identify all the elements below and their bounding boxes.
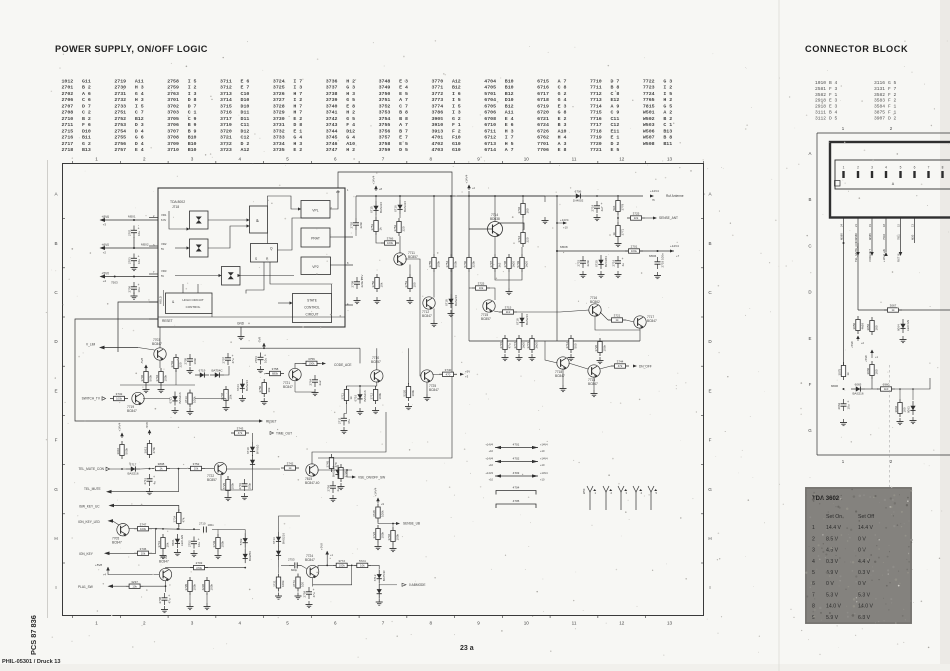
svg-text:C10: C10	[241, 91, 250, 97]
svg-text:9: 9	[477, 621, 480, 626]
ground	[160, 552, 167, 559]
junction	[522, 195, 524, 197]
svg-text:+5V: +5V	[465, 370, 470, 374]
svg-text:BZX284: BZX284	[604, 256, 608, 267]
svg-text:6713: 6713	[484, 141, 496, 147]
svg-text:2710: 2710	[62, 116, 74, 122]
svg-text:6715: 6715	[370, 206, 374, 213]
svg-text:2752: 2752	[114, 116, 126, 122]
svg-text:A12: A12	[452, 79, 461, 85]
resistor 3736	[134, 547, 152, 556]
svg-text:+: +	[168, 594, 170, 598]
svg-text:2: 2	[143, 157, 146, 162]
svg-text:6726: 6726	[537, 128, 549, 134]
svg-text:F 6: F 6	[82, 122, 91, 128]
transistor 7713	[588, 365, 600, 378]
svg-text:10: 10	[524, 621, 530, 626]
ground	[516, 354, 523, 361]
svg-text:2: 2	[857, 166, 859, 170]
svg-text:I 3: I 3	[293, 85, 302, 91]
connector grid ruler	[808, 126, 950, 464]
svg-text:D10: D10	[241, 97, 250, 103]
svg-text:B 2: B 2	[82, 116, 91, 122]
svg-text:-5V8: -5V8	[140, 358, 144, 364]
resistor 3753	[404, 274, 417, 292]
transistor 7722	[214, 462, 226, 475]
svg-text:8.5 V: 8.5 V	[826, 536, 839, 542]
wire	[104, 247, 158, 249]
svg-text:7720: 7720	[590, 141, 602, 147]
ground	[897, 418, 904, 425]
ground	[506, 288, 513, 295]
wire M508 bus	[557, 250, 674, 252]
svg-text:ION_KEY: ION_KEY	[79, 552, 94, 556]
svg-text:+5V8: +5V8	[95, 563, 102, 567]
main schematic frame	[63, 164, 704, 616]
svg-text:&: &	[256, 218, 259, 223]
svg-text:3724: 3724	[273, 79, 285, 85]
svg-text:SENSE_UB: SENSE_UB	[403, 522, 420, 526]
transistor 7711	[394, 253, 406, 266]
svg-text:3752: 3752	[393, 224, 397, 231]
svg-text:CONTROL: CONTROL	[186, 305, 201, 309]
svg-text:2k00: 2k00	[535, 342, 539, 349]
svg-text:220: 220	[526, 237, 530, 242]
svg-text:7718: 7718	[590, 128, 602, 134]
svg-text:1k: 1k	[612, 232, 616, 236]
svg-text:3582: 3582	[815, 92, 826, 98]
ground	[560, 385, 567, 392]
svg-text:5220: 5220	[402, 389, 406, 396]
svg-text:6710: 6710	[484, 122, 496, 128]
ground	[241, 493, 248, 500]
svg-text:3774: 3774	[431, 103, 443, 109]
svg-text:3112: 3112	[815, 115, 826, 121]
svg-text:3773: 3773	[431, 97, 443, 103]
resistor 3712b	[565, 335, 578, 353]
svg-text:100k: 100k	[396, 533, 400, 540]
resistor 3771b	[292, 574, 305, 592]
svg-text:BYV10: BYV10	[255, 444, 259, 454]
resistor 3716	[517, 229, 530, 247]
TDA3602 voltage table	[805, 487, 912, 624]
svg-text:TEL_MUTE_CON: TEL_MUTE_CON	[854, 240, 858, 262]
svg-text:A: A	[809, 151, 812, 156]
svg-text:A 2: A 2	[663, 110, 672, 116]
svg-text:2u2: 2u2	[318, 380, 322, 385]
svg-text:E: E	[708, 388, 711, 393]
svg-text:CODE_ACE: CODE_ACE	[334, 363, 352, 367]
svg-text:+7: +7	[676, 254, 680, 258]
svg-text:2062: 2062	[837, 402, 841, 409]
resistor 3751	[370, 217, 383, 235]
svg-text:7723: 7723	[643, 85, 655, 91]
svg-text:STATE: STATE	[307, 299, 317, 303]
svg-text:3752: 3752	[193, 462, 200, 466]
svg-text:BC847: BC847	[112, 541, 122, 545]
svg-text:2718 100n: 2718 100n	[661, 253, 665, 268]
svg-text:3752: 3752	[379, 103, 391, 109]
svg-text:6065: 6065	[855, 382, 862, 386]
svg-text:6718: 6718	[537, 97, 549, 103]
svg-text:7722: 7722	[643, 79, 655, 85]
svg-text:3727: 3727	[273, 97, 285, 103]
svg-text:BC847: BC847	[429, 388, 439, 392]
svg-text:100k: 100k	[281, 580, 285, 587]
svg-text:H 2: H 2	[346, 79, 355, 85]
svg-text:2758: 2758	[167, 79, 179, 85]
svg-text:7711: 7711	[590, 85, 602, 91]
resistor 3742	[281, 462, 299, 471]
svg-text:10k: 10k	[267, 387, 271, 392]
svg-text:3741: 3741	[157, 540, 161, 547]
diode 6721	[171, 534, 184, 548]
svg-text:2711: 2711	[143, 478, 147, 485]
svg-text:3723: 3723	[220, 147, 232, 153]
svg-text:3746: 3746	[326, 141, 338, 147]
resistor 3913	[143, 440, 156, 458]
svg-text:3773: 3773	[526, 341, 530, 348]
resistor 3704	[155, 368, 168, 386]
ground	[597, 357, 604, 364]
svg-text:560k: 560k	[454, 260, 458, 267]
svg-text:3786: 3786	[431, 110, 443, 116]
svg-text:6716: 6716	[394, 205, 398, 212]
svg-text:G 4: G 4	[558, 97, 567, 103]
svg-text:3757: 3757	[379, 135, 391, 141]
diode 5702a	[239, 533, 248, 547]
test point TP1	[587, 486, 597, 510]
svg-text:3746: 3746	[517, 206, 521, 213]
svg-text:7715: 7715	[590, 110, 602, 116]
svg-text:100u: 100u	[631, 249, 638, 253]
svg-text:4705: 4705	[513, 499, 520, 503]
capacitor 2703	[128, 254, 141, 266]
svg-text:5.9 V: 5.9 V	[826, 615, 839, 621]
svg-text:SENSE_ANT: SENSE_ANT	[659, 216, 678, 220]
resistor 3779	[612, 197, 625, 215]
svg-text:3708: 3708	[503, 260, 507, 267]
svg-text:+10: +10	[563, 226, 568, 230]
svg-text:M501: M501	[128, 215, 136, 219]
svg-text:H: H	[708, 536, 711, 541]
svg-text:3746: 3746	[387, 533, 391, 540]
svg-text:3111: 3111	[815, 110, 826, 116]
svg-text:3725: 3725	[273, 85, 285, 91]
resistor 3756	[303, 357, 321, 366]
svg-text:D10: D10	[241, 103, 250, 109]
ground	[615, 240, 622, 247]
resistor 3220	[402, 383, 415, 401]
resistor 3750	[371, 274, 384, 292]
junction	[375, 195, 377, 197]
svg-text:+8V6: +8V6	[101, 215, 109, 219]
svg-text:5701: 5701	[484, 91, 496, 97]
jumper 4703	[485, 471, 548, 482]
svg-text:I 5: I 5	[452, 103, 461, 109]
svg-text:470k: 470k	[152, 446, 156, 453]
svg-text:C 8: C 8	[558, 85, 567, 91]
svg-text:E 1: E 1	[293, 128, 302, 134]
svg-text:10u: 10u	[137, 287, 141, 292]
svg-text:C 1: C 1	[188, 110, 197, 116]
svg-text:3750: 3750	[258, 385, 262, 392]
svg-text:Set On: Set On	[826, 514, 842, 520]
svg-text:BC847: BC847	[127, 409, 137, 413]
svg-text:A 6: A 6	[82, 91, 91, 97]
svg-text:I 5: I 5	[135, 103, 144, 109]
svg-text:1k: 1k	[379, 227, 383, 231]
resistor 3766	[381, 237, 399, 246]
svg-text:I 7: I 7	[505, 135, 514, 141]
ground	[354, 297, 361, 304]
svg-text:3759: 3759	[379, 147, 391, 153]
svg-text:F 1: F 1	[888, 104, 897, 110]
ground	[542, 217, 549, 224]
svg-text:3725: 3725	[633, 212, 640, 216]
svg-text:3739: 3739	[212, 540, 216, 547]
svg-text:A 7: A 7	[558, 79, 567, 85]
svg-text:B 4: B 4	[829, 80, 838, 86]
resistor 3808	[152, 462, 170, 471]
svg-text:5709: 5709	[516, 260, 520, 267]
svg-text:560: 560	[574, 343, 578, 348]
svg-text:7710: 7710	[590, 79, 602, 85]
svg-text:100: 100	[301, 582, 305, 587]
svg-text:3913: 3913	[143, 446, 147, 453]
resistor 3739	[212, 534, 225, 552]
transistor 7710	[371, 370, 383, 383]
svg-text:E 7: E 7	[241, 85, 250, 91]
svg-text:3758: 3758	[379, 141, 391, 147]
svg-text:BAS216: BAS216	[525, 314, 529, 325]
grid column numbers top	[73, 157, 704, 164]
svg-text:7: 7	[928, 166, 930, 170]
svg-text:+10: +10	[540, 449, 545, 453]
svg-text:VR1: VR1	[161, 213, 167, 217]
svg-text:6718: 6718	[516, 318, 520, 325]
svg-text:SWITCH_TV: SWITCH_TV	[82, 397, 101, 401]
svg-text:220n: 220n	[359, 221, 363, 228]
wire vertical 408	[408, 348, 410, 384]
svg-text:BAS316: BAS316	[403, 201, 407, 212]
svg-text:C 9: C 9	[188, 116, 197, 122]
svg-text:BAS216: BAS216	[127, 472, 138, 476]
svg-text:7725: 7725	[222, 482, 226, 489]
svg-text:+5V0: +5V0	[101, 271, 109, 275]
ground	[131, 293, 138, 300]
svg-text:7: 7	[382, 157, 385, 162]
svg-text:4u: 4u	[153, 481, 157, 485]
svg-text:BAS216: BAS216	[281, 533, 285, 544]
svg-text:1010: 1010	[815, 80, 826, 86]
svg-text:7717: 7717	[590, 122, 602, 128]
svg-text:3707: 3707	[167, 128, 179, 134]
svg-text:3751: 3751	[370, 223, 374, 230]
comparator block K1	[190, 211, 209, 229]
svg-text:2730: 2730	[114, 85, 126, 91]
svg-text:I 3: I 3	[188, 91, 197, 97]
svg-text:6715: 6715	[537, 79, 549, 85]
svg-text:2719: 2719	[114, 79, 126, 85]
svg-text:+14V4 +2b: +14V4 +2b	[882, 248, 886, 262]
wire	[347, 382, 377, 389]
svg-text:100k: 100k	[378, 392, 382, 399]
svg-text:0.3 V: 0.3 V	[858, 570, 871, 576]
svg-text:B 2: B 2	[82, 85, 91, 91]
svg-text:10k: 10k	[360, 564, 365, 568]
connector X-A inner	[835, 160, 950, 189]
svg-text:6720: 6720	[595, 260, 599, 267]
svg-text:3721: 3721	[220, 135, 232, 141]
svg-text:+2: +2	[103, 251, 107, 255]
svg-text:6721: 6721	[537, 116, 549, 122]
svg-text:6706: 6706	[484, 110, 496, 116]
svg-text:W501: W501	[643, 110, 655, 116]
svg-text:G 2: G 2	[452, 116, 461, 122]
svg-text:100k: 100k	[339, 564, 346, 568]
svg-text:3: 3	[191, 621, 194, 626]
svg-text:3702: 3702	[167, 103, 179, 109]
svg-text:BAS216: BAS216	[363, 390, 367, 401]
svg-text:2706: 2706	[62, 97, 74, 103]
svg-text:C11: C11	[611, 116, 620, 122]
svg-text:M50: M50	[910, 234, 914, 240]
junction	[450, 195, 452, 197]
capacitor 2711c	[143, 474, 156, 486]
ground	[654, 272, 661, 279]
svg-text:0 V: 0 V	[858, 548, 866, 554]
capacitor 2719a	[591, 201, 604, 213]
svg-text:3720: 3720	[594, 344, 598, 351]
svg-text:I 5: I 5	[663, 91, 672, 97]
diode 6712b	[377, 584, 382, 598]
svg-text:5: 5	[286, 157, 289, 162]
ground	[239, 395, 246, 402]
svg-text:2719: 2719	[591, 204, 595, 211]
ground	[910, 417, 917, 424]
svg-text:H 3: H 3	[135, 97, 144, 103]
svg-text:8: 8	[429, 157, 432, 162]
svg-text:C 8: C 8	[611, 91, 620, 97]
ground	[840, 419, 847, 426]
capacitor 2706	[128, 282, 141, 294]
svg-text:M580: M580	[839, 233, 843, 240]
svg-text:G 3: G 3	[346, 85, 355, 91]
svg-text:G 2: G 2	[558, 91, 567, 97]
ground	[158, 386, 165, 393]
svg-text:100k: 100k	[140, 527, 147, 531]
ground	[615, 271, 622, 278]
transistor 7718	[557, 357, 569, 370]
svg-text:3755: 3755	[379, 122, 391, 128]
svg-text:6712: 6712	[484, 135, 496, 141]
svg-text:6704: 6704	[484, 97, 496, 103]
wire	[252, 433, 254, 442]
svg-text:A 3: A 3	[558, 141, 567, 147]
svg-text:8: 8	[429, 621, 432, 626]
node TEL_MUTE_CON	[78, 467, 109, 471]
jumper 4705	[496, 499, 536, 508]
svg-text:D 5: D 5	[399, 147, 408, 153]
transistor 7719	[132, 392, 144, 405]
svg-text:3116: 3116	[874, 80, 885, 86]
svg-text:BAW56: BAW56	[248, 551, 252, 561]
svg-text:2706: 2706	[128, 285, 132, 292]
svg-text:3716: 3716	[220, 110, 232, 116]
svg-text:3703: 3703	[167, 110, 179, 116]
svg-text:W50: W50	[582, 488, 586, 494]
AND gate block	[250, 206, 268, 233]
transistor 7714	[469, 213, 524, 237]
resistor 3702	[170, 354, 183, 372]
svg-text:B13: B13	[663, 128, 672, 134]
svg-text:E 4: E 4	[399, 85, 408, 91]
svg-text:4: 4	[238, 621, 241, 626]
svg-text:2703: 2703	[128, 257, 132, 264]
svg-text:2763: 2763	[167, 91, 179, 97]
svg-text:BC862: BC862	[590, 300, 600, 304]
svg-text:VPL: VPL	[312, 209, 319, 213]
ground	[405, 403, 412, 410]
ground	[330, 495, 337, 502]
resistor 3050	[852, 316, 865, 334]
svg-text:C 7: C 7	[399, 103, 408, 109]
svg-text:E 1: E 1	[611, 135, 620, 141]
svg-text:JT18: JT18	[172, 205, 179, 209]
svg-text:B13: B13	[82, 147, 91, 153]
svg-text:2708: 2708	[158, 596, 162, 603]
node +3 out	[460, 373, 464, 376]
svg-text:6710: 6710	[246, 447, 250, 454]
wire	[469, 287, 472, 289]
ground	[390, 545, 397, 552]
transistor 7703	[154, 348, 166, 361]
svg-text:3770: 3770	[431, 79, 443, 85]
svg-text:+10: +10	[489, 449, 494, 453]
comparator block K2	[190, 239, 209, 257]
svg-text:0:ABMODE: 0:ABMODE	[409, 583, 425, 587]
svg-text:B: B	[809, 197, 812, 202]
svg-text:3712: 3712	[220, 85, 232, 91]
svg-text:I: I	[709, 585, 710, 590]
svg-text:B10: B10	[505, 85, 514, 91]
svg-text:2715: 2715	[62, 128, 74, 134]
wire	[295, 363, 303, 368]
svg-text:3713: 3713	[184, 396, 188, 403]
svg-text:3773: 3773	[292, 580, 296, 587]
svg-text:3742: 3742	[287, 462, 294, 466]
svg-text:3067: 3067	[890, 304, 897, 308]
svg-text:A 7: A 7	[399, 97, 408, 103]
svg-text:BAS216: BAS216	[245, 380, 249, 391]
svg-text:BAS216: BAS216	[332, 466, 336, 477]
svg-text:+: +	[232, 354, 234, 358]
svg-text:11: 11	[572, 621, 577, 626]
svg-text:3: 3	[191, 157, 194, 162]
svg-text:3715: 3715	[220, 103, 232, 109]
resistor 3774a	[513, 335, 526, 353]
svg-text:HOLD: HOLD	[159, 296, 163, 304]
svg-text:3774: 3774	[513, 341, 517, 348]
svg-text:100k: 100k	[193, 396, 197, 403]
svg-text:3720: 3720	[220, 128, 232, 134]
supply +14V4	[118, 422, 124, 438]
svg-text:+: +	[601, 202, 603, 206]
svg-text:4702: 4702	[431, 141, 443, 147]
svg-text:3743: 3743	[237, 427, 244, 431]
resistor 3066	[894, 399, 907, 417]
